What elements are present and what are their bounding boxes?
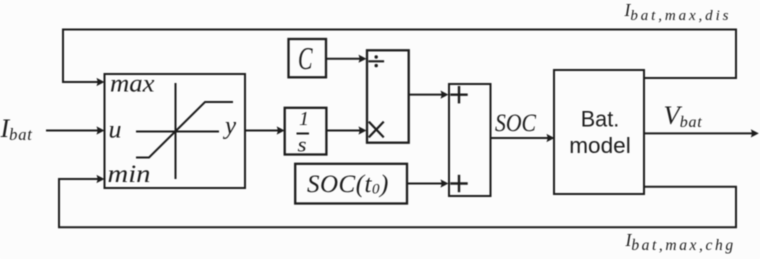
wire: divide-multiply output to summer top plus <box>409 91 449 99</box>
saturation block outline <box>105 74 246 188</box>
label Bat. model <box>569 107 631 159</box>
svg-text:1: 1 <box>299 108 309 130</box>
label y <box>222 113 237 140</box>
block C outline <box>289 39 327 77</box>
wire: summer output SOC to battery model <box>491 134 555 142</box>
label I_bat,max,chg <box>625 230 736 254</box>
label I_bat,max,dis <box>624 0 732 24</box>
wire: top feedback I_bat,max,dis <box>63 30 736 87</box>
label u <box>109 117 122 144</box>
svg-text:s: s <box>298 133 307 157</box>
summer block outline <box>449 84 491 196</box>
wire: I_bat input arrow <box>47 126 105 134</box>
saturation horizontal axis <box>137 131 218 133</box>
wire: V_bat output arrow <box>644 129 759 137</box>
label C <box>298 41 313 76</box>
svg-text:min: min <box>108 161 151 188</box>
label V_bat <box>664 100 703 131</box>
integrator block 1/s outline <box>285 108 327 155</box>
divide symbol <box>370 55 384 67</box>
block SOC(t0) outline <box>295 164 407 204</box>
multiply symbol <box>370 122 384 136</box>
svg-text:y: y <box>222 113 237 140</box>
label SOC <box>495 108 537 137</box>
svg-text:u: u <box>109 117 122 144</box>
wire: integrator to multiply input <box>327 126 367 134</box>
summer plus top <box>452 87 467 102</box>
label max <box>110 71 155 98</box>
divide-multiply block outline <box>367 50 409 142</box>
label 1 (numerator) <box>299 108 309 130</box>
wire: SOC(t0) output to summer bottom plus <box>407 179 449 187</box>
saturation vertical axis <box>175 84 177 178</box>
summer plus bottom <box>452 176 467 191</box>
svg-text:model: model <box>569 133 631 158</box>
label min <box>108 161 151 188</box>
wire: saturation y output to integrator <box>245 126 285 134</box>
wire: bottom feedback I_bat,max,chg <box>59 175 736 227</box>
battery model block outline <box>554 70 644 194</box>
svg-text:max: max <box>110 71 155 98</box>
svg-text:C: C <box>298 41 313 76</box>
wire: C to divide input <box>326 55 367 63</box>
saturation curve <box>137 102 232 158</box>
fraction bar <box>298 133 309 135</box>
svg-text:SOC: SOC <box>495 108 537 137</box>
svg-text:Bat.: Bat. <box>581 107 620 132</box>
label SOC(t0) <box>307 171 389 198</box>
label s (denominator) <box>298 133 307 157</box>
label I_bat <box>0 114 33 144</box>
